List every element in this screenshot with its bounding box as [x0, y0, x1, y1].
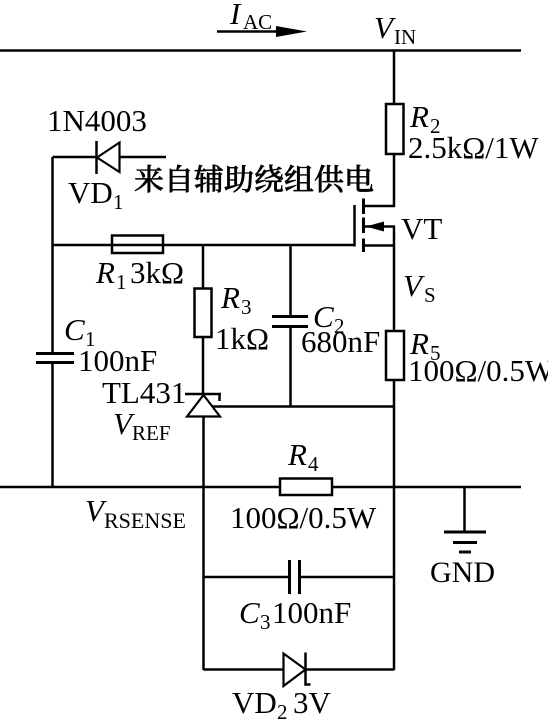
- wire VD2 horizontal left: [204, 668, 285, 671]
- svg-text:V: V: [403, 268, 425, 303]
- svg-text:VT: VT: [401, 211, 442, 246]
- wire R5 bottom through rail into lower box: [393, 380, 396, 670]
- svg-text:TL431: TL431: [102, 375, 186, 410]
- svg-text:R: R: [409, 99, 429, 134]
- svg-text:100nF: 100nF: [78, 343, 157, 378]
- wire lower box left vertical: [202, 487, 205, 670]
- svg-text:1N4003: 1N4003: [47, 103, 147, 138]
- resistor R1: [112, 236, 163, 254]
- node VIN label: [374, 10, 416, 49]
- resistor R4: [280, 479, 332, 496]
- wire IAC arrow: [217, 26, 307, 37]
- resistor R5 labels: [408, 326, 548, 388]
- svg-text:3kΩ: 3kΩ: [130, 255, 184, 290]
- wire top rail: [0, 49, 521, 52]
- wire VIN vertical to R2: [393, 51, 396, 106]
- svg-text:R: R: [287, 437, 307, 472]
- svg-text:1: 1: [113, 190, 124, 214]
- wire left branch vertical lower (C1 to bottom rail): [51, 363, 54, 487]
- svg-text:VD: VD: [68, 175, 113, 210]
- svg-text:IN: IN: [394, 25, 416, 49]
- resistor R2: [386, 104, 404, 154]
- wire VD2 horizontal right: [306, 668, 394, 671]
- capacitor C2 labels: [301, 299, 380, 359]
- svg-text:2.5kΩ/1W: 2.5kΩ/1W: [408, 130, 539, 165]
- wire VD1 horizontal: [53, 156, 97, 159]
- wire R3 branch top: [202, 245, 205, 289]
- svg-text:S: S: [424, 283, 436, 307]
- node VS label: [403, 268, 436, 307]
- svg-text:REF: REF: [132, 421, 171, 445]
- svg-text:R: R: [95, 255, 115, 290]
- wire bottom rail left segment: [0, 486, 280, 489]
- wire TL431 ref to R5 bottom: [212, 405, 394, 408]
- capacitor C2: [272, 317, 308, 327]
- diode VD2 zener: [284, 653, 311, 687]
- svg-text:680nF: 680nF: [301, 324, 380, 359]
- resistor R4 refdes label: [287, 437, 319, 476]
- wire TL431 anode to bottom rail: [202, 417, 205, 488]
- svg-text:100Ω/0.5W: 100Ω/0.5W: [230, 500, 377, 535]
- svg-text:C: C: [64, 312, 85, 347]
- svg-text:RSENSE: RSENSE: [104, 508, 186, 533]
- wire C2 branch top: [289, 245, 292, 317]
- svg-text:100nF: 100nF: [272, 595, 351, 630]
- svg-text:GND: GND: [430, 556, 495, 589]
- svg-text:1: 1: [116, 270, 127, 294]
- transistor Q1 VT mosfet: [355, 199, 396, 253]
- wire left branch vertical upper (VD1 to C1): [51, 157, 54, 353]
- resistor R2 labels: [408, 99, 539, 165]
- capacitor C1 labels: [64, 312, 157, 378]
- svg-text:1kΩ: 1kΩ: [215, 321, 269, 356]
- capacitor C3: [290, 560, 300, 594]
- svg-text:4: 4: [308, 452, 319, 476]
- wire R2 to VT drain: [393, 154, 396, 207]
- node VRSENSE label: [85, 493, 186, 533]
- capacitor C1: [36, 354, 74, 363]
- svg-text:2: 2: [277, 700, 288, 724]
- diode VD1: [97, 141, 120, 174]
- svg-text:V: V: [374, 10, 396, 45]
- wire C3 horizontal right: [300, 576, 394, 579]
- svg-text:100Ω/0.5W: 100Ω/0.5W: [408, 353, 548, 388]
- wire C3 horizontal left: [204, 576, 290, 579]
- svg-text:3: 3: [260, 610, 271, 634]
- capacitor C3 labels: [239, 595, 351, 634]
- node VREF label: [113, 406, 171, 445]
- svg-text:I: I: [229, 0, 242, 31]
- diode VD1 refdes label: [68, 175, 124, 214]
- wire auxiliary winding annotation (Chinese): [135, 165, 373, 193]
- wire VT source down to R5: [393, 246, 396, 333]
- resistor R3: [195, 289, 212, 338]
- wire R3 to TL431: [202, 337, 205, 394]
- node IAC label: [229, 0, 272, 34]
- op-amp U1 TL431: [185, 394, 221, 417]
- resistor R5: [386, 331, 404, 380]
- wire bottom rail right segment: [332, 486, 521, 489]
- wire gate horizontal from left branch through R1 to VT: [53, 244, 355, 247]
- resistor R3 labels: [215, 280, 269, 356]
- svg-text:AC: AC: [243, 10, 272, 34]
- svg-text:VD: VD: [232, 685, 277, 720]
- svg-text:3: 3: [241, 295, 252, 319]
- wire C2 branch bottom: [289, 327, 292, 407]
- svg-text:3V: 3V: [293, 685, 332, 720]
- svg-text:C: C: [239, 595, 260, 630]
- resistor R1 labels: [95, 255, 184, 294]
- diode VD2 labels: [232, 685, 332, 724]
- svg-text:R: R: [220, 280, 240, 315]
- ground: [444, 487, 486, 552]
